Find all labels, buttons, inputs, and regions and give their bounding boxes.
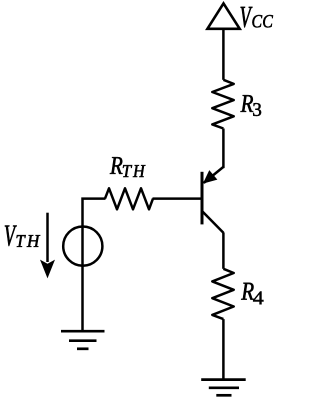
wire R3 to transistor [222, 129, 225, 169]
wire VCC to R3 [222, 29, 225, 80]
label R4 [241, 283, 263, 304]
transistor Q1 emitter arrowhead [204, 171, 217, 183]
wire collector to R4 [222, 232, 225, 268]
resistor R3 [212, 80, 233, 129]
ground (left) [61, 331, 105, 349]
transistor Q1 base bar [201, 172, 204, 225]
transistor Q1 collector lead [203, 212, 224, 233]
label RTH [110, 157, 146, 177]
wire base to RTH [153, 197, 203, 200]
source VTH circle [63, 227, 102, 266]
resistor RTH [105, 188, 153, 209]
label VCC [241, 7, 273, 28]
label VTH [5, 226, 40, 247]
resistor R4 [212, 269, 233, 319]
label R3 [240, 95, 261, 116]
ground (right) [201, 380, 246, 396]
wire RTH to source (corner) [83, 199, 106, 331]
wire R4 to ground [222, 319, 225, 379]
transistor Q1 (PNP) emitter lead [204, 167, 224, 183]
arrow VTH polarity [40, 213, 55, 279]
power VCC symbol [207, 3, 239, 28]
